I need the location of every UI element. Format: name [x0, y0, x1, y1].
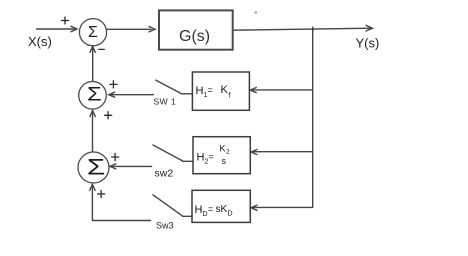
- svg-text:Sw3: Sw3: [156, 221, 174, 231]
- svg-text:Σ: Σ: [87, 154, 105, 179]
- svg-text:=: =: [209, 152, 214, 162]
- svg-text:SW 1: SW 1: [154, 97, 177, 107]
- svg-text:H: H: [196, 85, 204, 97]
- svg-text:D: D: [228, 211, 233, 218]
- svg-text:H: H: [195, 204, 203, 216]
- svg-text:=: =: [208, 204, 213, 214]
- svg-text:sw2: sw2: [155, 168, 174, 180]
- svg-text:sK: sK: [216, 204, 228, 215]
- svg-text:D: D: [203, 211, 208, 218]
- svg-text:G(s): G(s): [179, 28, 210, 45]
- svg-text:X(s): X(s): [28, 34, 52, 49]
- svg-text:Σ: Σ: [88, 24, 98, 41]
- svg-text:Σ: Σ: [87, 83, 102, 105]
- svg-text:H: H: [197, 152, 205, 164]
- svg-text:=: =: [208, 85, 213, 95]
- svg-text:s: s: [222, 156, 227, 166]
- svg-text:K: K: [220, 144, 226, 154]
- svg-text:Y(s): Y(s): [356, 36, 380, 51]
- svg-text:K: K: [221, 84, 229, 96]
- svg-text:2: 2: [226, 149, 230, 156]
- svg-text:f: f: [229, 93, 231, 100]
